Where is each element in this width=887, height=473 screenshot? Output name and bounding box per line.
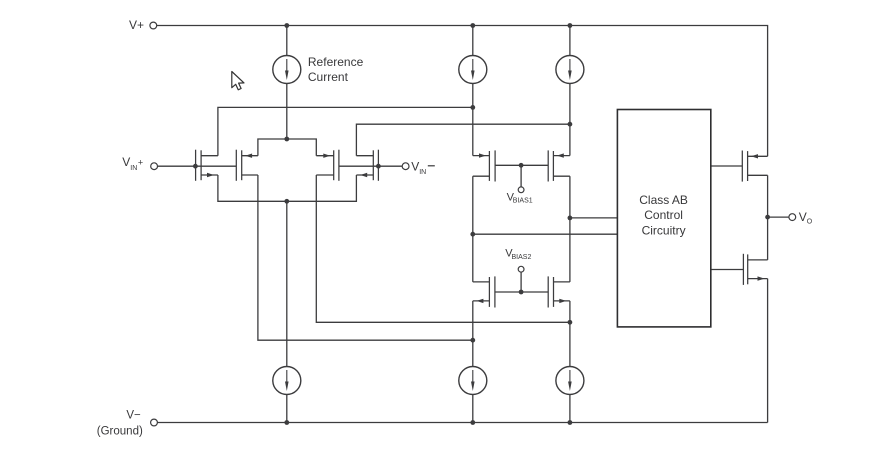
svg-text:Current: Current [308, 70, 349, 84]
svg-text:BIAS2: BIAS2 [512, 254, 532, 261]
svg-text:V: V [799, 210, 807, 224]
svg-text:V: V [411, 159, 419, 173]
svg-text:IN: IN [419, 169, 426, 176]
svg-text:Reference: Reference [308, 55, 364, 69]
svg-text:O: O [807, 219, 813, 226]
svg-text:V+: V+ [129, 18, 144, 32]
svg-text:BIAS1: BIAS1 [513, 197, 533, 204]
svg-text:Circuitry: Circuitry [642, 223, 686, 237]
svg-text:V−: V− [126, 409, 141, 421]
svg-text:V: V [122, 155, 130, 169]
svg-text:IN: IN [130, 165, 137, 172]
svg-text:(Ground): (Ground) [97, 426, 143, 438]
svg-text:Control: Control [644, 208, 683, 222]
svg-text:+: + [138, 157, 143, 167]
svg-text:Class AB: Class AB [639, 193, 688, 207]
